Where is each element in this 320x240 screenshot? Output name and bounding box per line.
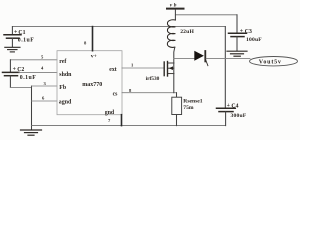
svg-text:3: 3 xyxy=(44,81,47,86)
wire output node xyxy=(206,58,250,60)
svg-text:+: + xyxy=(240,28,243,34)
svg-text:22uH: 22uH xyxy=(180,29,194,35)
node Vout oval xyxy=(250,57,298,66)
label C1 value 0.1uF xyxy=(18,37,35,43)
label C2 + xyxy=(13,67,25,73)
pin number 8 (cs) xyxy=(129,88,132,93)
transistor Q1 irf530 xyxy=(164,62,174,93)
svg-text:8: 8 xyxy=(129,88,132,93)
label Vout5v xyxy=(259,60,282,66)
svg-text:5: 5 xyxy=(41,55,44,60)
svg-text:+: + xyxy=(227,103,230,109)
wire agnd pin y101 xyxy=(32,100,58,102)
svg-text:cs: cs xyxy=(113,91,119,97)
label pin Fb xyxy=(59,85,67,91)
pin number 7 (gnd) xyxy=(108,118,111,123)
wire ext pin to gate xyxy=(122,67,164,69)
wire C3 drop x237 xyxy=(236,15,238,33)
label C4 + xyxy=(227,103,239,109)
capacitor C1 xyxy=(4,27,21,47)
wire C2 bottom corner to left vertical xyxy=(10,86,31,126)
svg-text:agnd: agnd xyxy=(59,100,72,106)
pin number 8 (v+) xyxy=(84,41,87,46)
svg-text:Fb: Fb xyxy=(59,85,67,91)
svg-text:v+: v+ xyxy=(91,54,97,60)
wire input rail y26.5 xyxy=(12,26,225,28)
wire bottom rail y125.5 xyxy=(32,125,226,127)
svg-text:0.1uF: 0.1uF xyxy=(20,75,37,81)
capacitor C3 xyxy=(229,33,247,51)
wire v+ pin from rail xyxy=(92,27,94,51)
svg-text:1: 1 xyxy=(131,63,134,68)
label pin ext xyxy=(109,67,116,73)
wire gnd pin to bottom rail xyxy=(121,115,123,126)
ground under C1 xyxy=(5,47,20,52)
label pin gnd xyxy=(105,110,115,116)
label max770 xyxy=(82,82,102,88)
wire fb pin y86 xyxy=(32,85,58,87)
label Rsense1 xyxy=(183,98,202,104)
label pin v+ xyxy=(91,54,97,60)
label 75m xyxy=(183,105,194,111)
wire drain column xyxy=(174,47,175,63)
svg-text:75m: 75m xyxy=(183,105,194,111)
label pin shdn xyxy=(59,72,72,78)
label pin ref xyxy=(59,59,67,65)
svg-text:C3: C3 xyxy=(245,29,252,35)
svg-text:300uF: 300uF xyxy=(231,113,247,119)
svg-text:ref: ref xyxy=(59,59,67,65)
svg-text:+: + xyxy=(13,67,16,73)
pin number 3 (fb) xyxy=(44,81,47,86)
label C4 value 300uF xyxy=(231,113,247,119)
svg-text:vb: vb xyxy=(170,3,178,9)
svg-text:8: 8 xyxy=(84,41,87,46)
label pin cs xyxy=(113,91,119,97)
wire output-column vertical x225 xyxy=(224,27,226,108)
svg-text:7: 7 xyxy=(108,118,111,123)
wire diode anode xyxy=(174,58,195,60)
svg-text:gnd: gnd xyxy=(105,110,115,116)
wire cs pin to sense node xyxy=(122,92,177,94)
svg-text:100uF: 100uF xyxy=(246,37,262,43)
op-amp U1 max770 box xyxy=(57,51,122,115)
label irf530 xyxy=(146,76,160,82)
svg-text:4: 4 xyxy=(41,65,44,70)
label C3 value 100uF xyxy=(246,37,262,43)
capacitor C2 xyxy=(3,72,20,87)
bottom ground xyxy=(21,126,42,136)
svg-text:shdn: shdn xyxy=(59,72,72,78)
svg-text:6: 6 xyxy=(42,96,45,101)
label Vb xyxy=(170,3,178,9)
label C2 value 0.1uF xyxy=(20,75,37,81)
wire ref pin to C2 xyxy=(10,60,57,72)
svg-text:irf530: irf530 xyxy=(146,76,160,82)
resistor Rsense1 xyxy=(172,93,182,126)
svg-text:+: + xyxy=(14,29,17,35)
svg-text:Rsense1: Rsense1 xyxy=(183,98,202,104)
svg-text:C1: C1 xyxy=(18,30,25,36)
wire upper rail y14.5 xyxy=(175,14,237,16)
svg-text:C4: C4 xyxy=(231,104,238,110)
pin number 1 (ext) xyxy=(131,63,134,68)
svg-text:ext: ext xyxy=(109,67,116,73)
label C1 + xyxy=(14,29,26,35)
ground under C3 xyxy=(227,51,247,56)
wire shdn pin y72.5 xyxy=(19,71,57,73)
pin number 6 (agnd) xyxy=(42,96,45,101)
power symbol Vb bar xyxy=(167,9,184,20)
label 22uH xyxy=(180,29,194,35)
svg-text:0.1uF: 0.1uF xyxy=(18,37,35,43)
diode D1 xyxy=(194,51,208,66)
label pin agnd xyxy=(59,100,72,106)
inductor L1 22uH xyxy=(167,20,175,48)
pin number 5 (ref) xyxy=(41,55,44,60)
capacitor C4 xyxy=(217,108,236,125)
pin number 4 (shdn) xyxy=(41,65,44,70)
svg-text:Vout5v: Vout5v xyxy=(259,60,282,66)
transistor arrow xyxy=(169,66,173,70)
label C3 + xyxy=(240,28,252,34)
svg-text:max770: max770 xyxy=(82,82,102,88)
